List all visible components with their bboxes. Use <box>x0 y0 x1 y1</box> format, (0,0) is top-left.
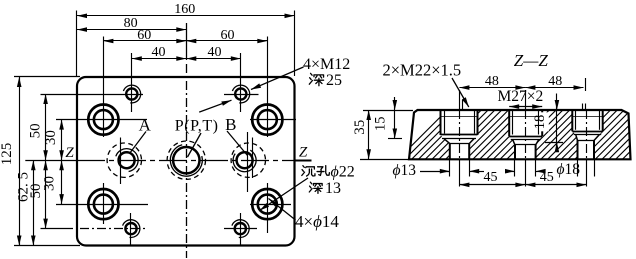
dimension 45 left <box>459 184 525 186</box>
leader counterbore <box>260 178 309 211</box>
section middle M27x2 tapped hole <box>508 110 510 136</box>
port P phantom circle <box>167 141 205 179</box>
svg-text:25: 25 <box>326 72 342 89</box>
svg-text:160: 160 <box>174 2 195 17</box>
counterbore hole bottom-right (phi22/phi14) <box>252 189 282 219</box>
centerlines bottom-right counterbore <box>250 204 291 206</box>
phi13 arrows <box>420 171 450 173</box>
leader 4xphi14 <box>269 199 296 221</box>
dimension 40 left <box>132 58 187 60</box>
svg-text:30: 30 <box>43 130 59 145</box>
svg-text:18: 18 <box>532 115 548 130</box>
counterbore hole top-left (phi22/phi14) <box>88 105 118 135</box>
section top edge extension <box>363 110 413 112</box>
port A vertical centerline <box>120 138 122 185</box>
48-dim extension right hole <box>585 78 587 91</box>
dimension 160 <box>76 11 78 77</box>
port B circle <box>237 152 253 168</box>
svg-text:40: 40 <box>208 45 222 60</box>
svg-text:4×ϕ14: 4×ϕ14 <box>295 212 339 231</box>
label depth 25 (shen 25) <box>311 73 313 75</box>
extension line top edge <box>14 76 80 78</box>
centerlines bottom-left counterbore <box>56 204 148 206</box>
M12 threaded hole top-right <box>235 88 246 99</box>
centerlines bottom-left M12 <box>41 228 74 230</box>
leader 2xM22 <box>452 78 469 107</box>
Z-Z horizontal centerline <box>25 160 76 162</box>
centerlines bottom-right M12 <box>224 228 257 230</box>
section bottom edge extension <box>360 159 408 161</box>
centerlines top-left counterbore <box>56 119 147 121</box>
dimension 30 top <box>61 120 63 161</box>
dimension 125 <box>19 77 21 246</box>
dimension 18 <box>556 94 558 153</box>
extension line bottom edge <box>14 245 80 247</box>
svg-text:35: 35 <box>352 120 368 135</box>
dimension 40 right <box>186 58 241 60</box>
svg-text:50: 50 <box>28 184 44 199</box>
M12 threaded hole bottom-left <box>125 223 136 234</box>
section right M22 tapped hole centerline <box>586 110 588 159</box>
svg-text:80: 80 <box>124 16 138 31</box>
svg-text:P(P,T): P(P,T) <box>175 118 219 135</box>
centerlines top-right M12 <box>224 94 259 96</box>
svg-text:4×M12: 4×M12 <box>303 56 350 73</box>
leader B <box>227 131 248 156</box>
leader P <box>188 133 202 157</box>
dimension 48 left <box>459 87 525 89</box>
leader 4xM12 <box>251 67 304 90</box>
port A phantom circle <box>107 143 141 177</box>
svg-text:125: 125 <box>0 143 15 166</box>
svg-text:40: 40 <box>152 45 166 60</box>
48-dim extension middle hole <box>525 90 527 109</box>
svg-text:13: 13 <box>325 180 341 197</box>
dimension 45 right <box>525 184 586 186</box>
plate outline (plan view) <box>77 77 295 246</box>
port A circle <box>119 152 135 168</box>
M27 arrows <box>509 106 542 108</box>
svg-text:ϕ22: ϕ22 <box>331 164 355 181</box>
counterbore hole top-right (phi22/phi14) <box>252 105 282 135</box>
dimension 60 right <box>186 40 267 42</box>
svg-text:48: 48 <box>548 74 562 89</box>
stem extension lines middle <box>514 159 516 176</box>
svg-text:15: 15 <box>373 116 389 131</box>
svg-text:48: 48 <box>485 74 499 89</box>
dimension 80 <box>77 29 186 31</box>
svg-text:Z—Z: Z—Z <box>514 51 549 70</box>
svg-text:Z: Z <box>299 145 308 161</box>
dimension 15 <box>394 97 396 139</box>
port B phantom circle <box>231 143 265 177</box>
label depth 13 (shen 13) <box>310 182 311 184</box>
section middle M27x2 tapped hole centerline <box>525 110 527 159</box>
svg-text:45: 45 <box>484 170 498 185</box>
dimension 60 left <box>103 40 186 42</box>
port B vertical centerline <box>247 132 249 192</box>
M12 threaded hole top-left <box>126 88 137 99</box>
svg-text:ϕ18: ϕ18 <box>557 161 581 178</box>
svg-text:50: 50 <box>28 123 44 138</box>
dimension 50 bottom <box>45 160 47 228</box>
section left M22 tapped hole <box>440 110 442 135</box>
svg-text:Z: Z <box>65 145 74 161</box>
stem extension lines left <box>449 159 451 176</box>
centerlines top-left M12 <box>41 94 144 96</box>
svg-text:2×M22×1.5: 2×M22×1.5 <box>383 61 462 80</box>
svg-text:30: 30 <box>42 176 58 191</box>
port P circle (center) <box>173 147 199 173</box>
leader A <box>130 132 147 154</box>
svg-text:60: 60 <box>221 28 235 43</box>
M12 threaded hole bottom-right <box>235 223 246 234</box>
dimension 48 right <box>525 87 583 89</box>
svg-text:ϕ13: ϕ13 <box>393 162 417 179</box>
svg-text:45: 45 <box>540 170 554 185</box>
dimension 30 bottom <box>61 160 63 204</box>
dimension 62.5 <box>33 160 35 245</box>
svg-text:M27×2: M27×2 <box>498 88 544 105</box>
vertical centerline of plate <box>186 23 188 60</box>
label counterbore phi22 (chen kong phi22) <box>303 166 304 168</box>
section right M22 tapped hole <box>571 110 573 131</box>
dimension 50 top <box>45 94 47 160</box>
section left M22 tapped hole centerline <box>459 110 461 159</box>
centerlines top-right counterbore <box>250 119 296 121</box>
svg-text:B: B <box>225 115 236 134</box>
48-dim extension left hole <box>459 90 461 109</box>
svg-text:60: 60 <box>137 28 151 43</box>
dimension 35 <box>368 110 370 159</box>
counterbore hole bottom-left (phi22/phi14) <box>88 189 118 219</box>
leader to M12 hole from lower-left <box>199 100 231 112</box>
stem extension lines right <box>577 159 579 176</box>
